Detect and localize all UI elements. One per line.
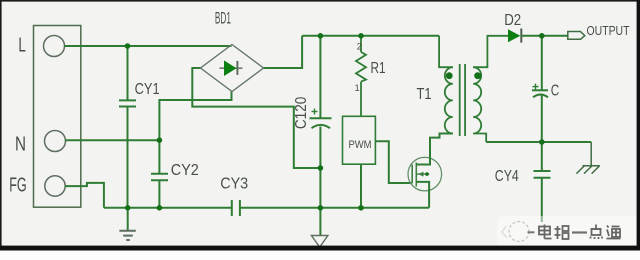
- wire N riser to bridge: [159, 92, 231, 141]
- resistor R1: [356, 36, 366, 117]
- node DC rail C120 junction: [318, 33, 324, 39]
- svg-text:D2: D2: [504, 12, 521, 29]
- bridge rectifier BD1 diamond: [201, 45, 264, 92]
- wire FG line: [65, 183, 104, 208]
- capacitor C output: [532, 36, 548, 142]
- capacitor C120: [310, 36, 332, 208]
- svg-text:PWM: PWM: [349, 139, 372, 151]
- node N junction: [157, 137, 163, 143]
- watermark text dian2: [591, 225, 603, 240]
- node output junction: [539, 33, 545, 39]
- node PWM ground junction: [358, 205, 364, 211]
- watermark text lu: [555, 226, 569, 239]
- capacitor CY3: [232, 200, 240, 216]
- svg-text:C: C: [551, 83, 560, 100]
- PWM controller U1: [343, 116, 376, 164]
- wire bridge DC plus: [264, 36, 303, 68]
- pin L circle: [44, 36, 65, 57]
- ground triangle primary: [311, 208, 328, 247]
- polarity dot T1 secondary: [474, 72, 481, 79]
- svg-text:FG: FG: [9, 174, 27, 196]
- connector J1 terminal block: [34, 26, 81, 208]
- svg-text:L: L: [18, 35, 26, 57]
- wire N line: [66, 139, 160, 141]
- node CY2 ground junction: [157, 205, 163, 211]
- node DC minus junction: [318, 165, 324, 171]
- svg-text:CY3: CY3: [220, 175, 248, 192]
- polarity dot T1 primary: [446, 72, 453, 79]
- wire D2 to output: [521, 35, 568, 37]
- port OUTPUT symbol: [568, 32, 585, 40]
- pin N circle: [45, 131, 66, 152]
- node secondary ground junction: [539, 139, 545, 145]
- wire Q1 drain from T1: [416, 134, 453, 165]
- wire earth rail left: [104, 207, 232, 209]
- diode D2: [508, 29, 521, 43]
- watermark logo: [502, 222, 529, 242]
- svg-text:CY1: CY1: [135, 81, 160, 98]
- wire PWM gate drive: [375, 141, 412, 183]
- node L junction: [125, 43, 131, 49]
- watermark dash: [528, 231, 535, 233]
- wire primary ground rail: [240, 207, 429, 209]
- svg-text:N: N: [15, 134, 26, 156]
- svg-text:R1: R1: [371, 60, 386, 77]
- wire bridge DC minus: [192, 68, 320, 168]
- watermark backdrop: [497, 216, 640, 247]
- wire PWM ground lead: [360, 164, 362, 208]
- plus sign C120: [312, 109, 318, 115]
- node triangle ground junction: [318, 205, 324, 211]
- watermark text tong: [607, 226, 621, 239]
- wire secondary ground rail: [486, 141, 591, 143]
- wire top DC rail: [302, 35, 439, 37]
- svg-text:BD1: BD1: [215, 8, 231, 27]
- watermark text yi: [572, 231, 587, 233]
- capacitor CY4: [534, 142, 551, 222]
- node earth junction: [125, 205, 131, 211]
- capacitor CY1: [119, 46, 136, 208]
- node DC rail R1 junction: [358, 33, 364, 39]
- frame borders: [0, 0, 640, 2]
- pin FG circle: [45, 176, 65, 196]
- watermark text dian: [539, 225, 552, 239]
- svg-text:C120: C120: [293, 96, 310, 129]
- wire Q1 source to rail: [416, 182, 429, 208]
- svg-text:CY4: CY4: [495, 168, 519, 185]
- svg-text:CY2: CY2: [171, 162, 199, 179]
- svg-text:2: 2: [357, 41, 362, 51]
- capacitor CY2: [151, 140, 168, 208]
- ground earth left: [119, 208, 135, 240]
- plus sign C: [533, 84, 539, 90]
- svg-text:T1: T1: [417, 86, 432, 103]
- svg-text:1: 1: [355, 83, 360, 93]
- transformer T1: [439, 36, 508, 142]
- wire L line: [65, 45, 232, 47]
- svg-text:OUTPUT: OUTPUT: [587, 24, 630, 38]
- transistor Q1 MOSFET: [408, 157, 442, 191]
- bridge BD1 internal diode: [220, 60, 243, 76]
- ground chassis right: [576, 142, 599, 174]
